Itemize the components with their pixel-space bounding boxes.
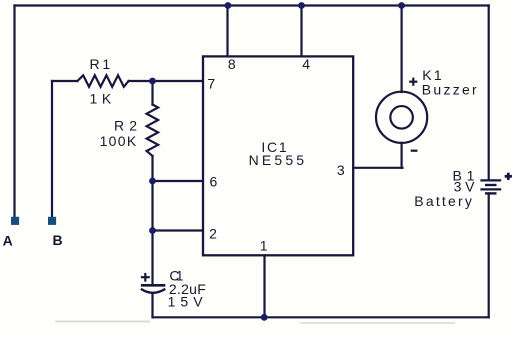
wire right rail upper [488, 6, 490, 181]
wire junction 6 to junction 2 [151, 181, 153, 231]
node junction dot buzzer top [398, 2, 405, 9]
resistor R1 [77, 75, 128, 87]
capacitor C1 symbol [141, 273, 165, 293]
battery B1 symbol [480, 180, 501, 193]
svg-text:7: 7 [207, 76, 215, 92]
wire bottom rail [153, 316, 489, 318]
wire pin 3 to buzzer [353, 167, 402, 169]
wire R1 to pin 7 [129, 80, 203, 82]
wire junction to R2 [151, 81, 153, 105]
svg-text:1: 1 [260, 237, 268, 253]
wire left rail node A [13, 6, 15, 217]
wire pin 4 up [300, 6, 302, 57]
resistor R2 [147, 105, 159, 157]
wire buzzer bottom lead [401, 143, 403, 168]
svg-text:3V: 3V [454, 178, 476, 194]
svg-text:8: 8 [228, 56, 236, 72]
svg-text:A: A [3, 233, 13, 249]
node junction dot pin 2 [149, 227, 156, 234]
wire top rail [15, 4, 489, 6]
artifact grey line left [55, 321, 150, 323]
wire right rail lower [488, 193, 490, 317]
wire pin 8 up [226, 6, 228, 57]
op-amp box IC1 NE555 [203, 56, 353, 255]
wire pin 6 [153, 180, 203, 182]
wire pin 1 down [263, 255, 265, 317]
svg-text:2: 2 [209, 226, 217, 242]
wire C1 to bottom rail [151, 294, 153, 317]
wire B to R1 [52, 80, 77, 82]
wire junction 2 to C1 [151, 231, 153, 285]
buzzer K1 symbol [376, 92, 427, 143]
svg-text:15V: 15V [168, 293, 204, 309]
svg-text:Buzzer: Buzzer [422, 82, 477, 98]
terminal B square [48, 217, 56, 225]
node junction dot pin4 top [298, 2, 305, 9]
svg-text:100K: 100K [100, 133, 137, 149]
buzzer minus sign [411, 150, 418, 152]
svg-text:4: 4 [302, 56, 310, 72]
wire pin 2 [153, 229, 203, 231]
wire R2 to pin 6 junction [151, 156, 153, 181]
node junction dot pin 6 [149, 178, 156, 185]
svg-text:6: 6 [210, 174, 218, 190]
node junction dot pin8 top [225, 2, 232, 9]
svg-text:B: B [53, 232, 63, 248]
artifact grey line right [300, 322, 455, 324]
terminal A square [11, 217, 19, 225]
wire node B lead [51, 81, 53, 217]
buzzer plus sign [409, 78, 417, 86]
node junction dot pin1 bottom [261, 314, 268, 321]
node junction dot R1 R2 pin7 [149, 78, 156, 85]
svg-text:NE555: NE555 [249, 152, 305, 168]
wire buzzer top lead [401, 6, 403, 93]
battery plus sign [505, 173, 512, 180]
svg-text:3: 3 [337, 162, 345, 178]
